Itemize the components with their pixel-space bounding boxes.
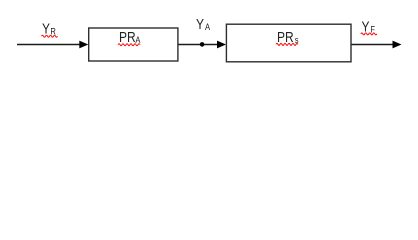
svg-text:Y: Y — [362, 18, 370, 35]
svg-text:PR: PR — [119, 29, 136, 46]
svg-text:Y: Y — [42, 20, 50, 37]
svg-text:A: A — [205, 21, 210, 32]
svg-text:PR: PR — [277, 29, 294, 46]
svg-text:Y: Y — [196, 16, 204, 33]
